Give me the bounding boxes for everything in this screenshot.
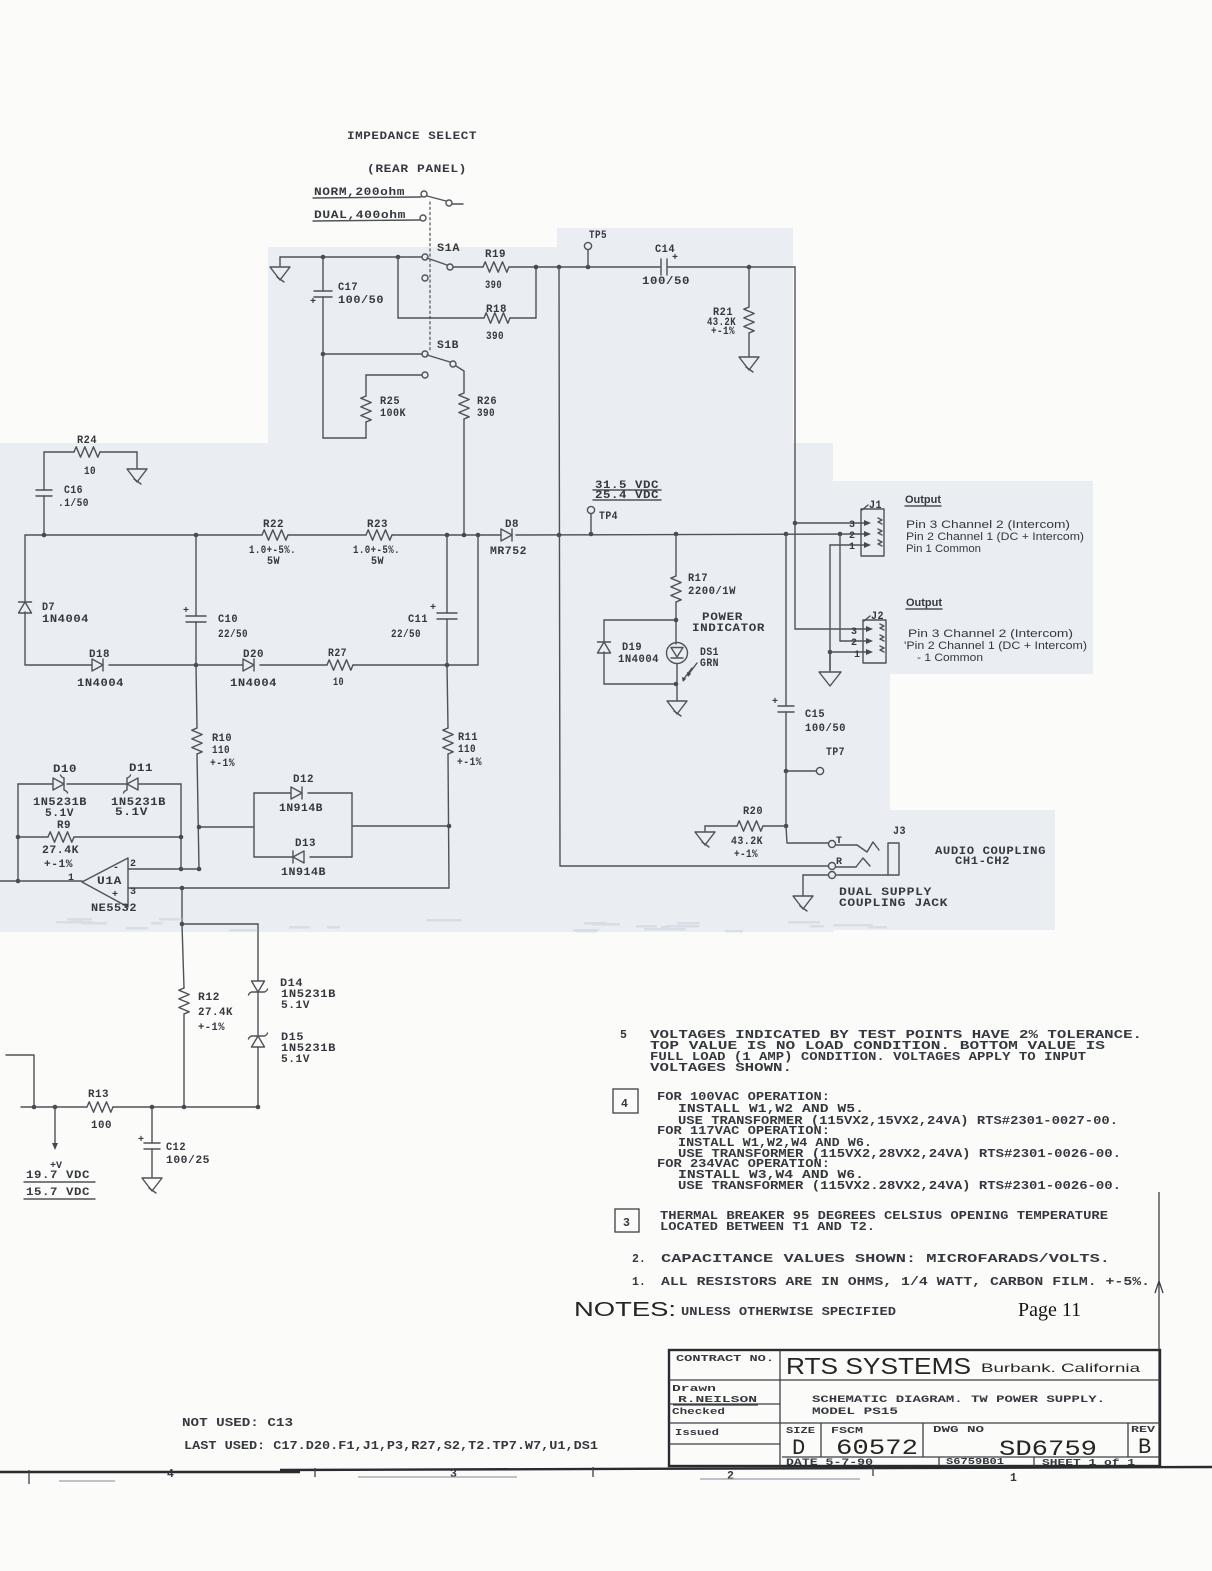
test point TP4 [587, 506, 594, 513]
svg-text:10: 10 [333, 677, 344, 689]
svg-text:390: 390 [477, 408, 495, 420]
node R12/D14 branch [180, 922, 185, 927]
svg-text:ALL RESISTORS ARE IN OHMS, 1/4: ALL RESISTORS ARE IN OHMS, 1/4 WATT, CAR… [661, 1276, 1150, 1289]
node L-wire/row [32, 1105, 37, 1110]
node J2 pin2/rail [838, 532, 843, 537]
svg-text:+: + [183, 606, 189, 617]
switch S1A [422, 254, 428, 260]
svg-text:J1: J1 [869, 500, 882, 512]
svg-text:D7: D7 [42, 602, 55, 614]
resistor R10 [196, 665, 197, 728]
node C15/rail [784, 532, 789, 537]
svg-text:(REAR PANEL): (REAR PANEL) [367, 164, 467, 176]
svg-text:5.1V: 5.1V [281, 1054, 310, 1066]
svg-text:LAST USED: C17.D20.F1,J1,P3,: LAST USED: C17.D20.F1,J1,P3,R27,S2,T2.TP… [184, 1440, 598, 1453]
node C11/rail [445, 533, 450, 538]
svg-text:Pin 2 Channel 1 (DC + Intercom: Pin 2 Channel 1 (DC + Intercom) [906, 531, 1084, 543]
svg-text:MR752: MR752 [490, 546, 527, 558]
capacitor C15 [785, 534, 787, 706]
diode D18 1N4004 [92, 659, 103, 671]
wire - box right to R11 column [352, 825, 449, 827]
resistor R20 43.2K [763, 825, 786, 827]
wire - R20 node to jack tip [786, 826, 828, 843]
svg-text:Burbank. California: Burbank. California [981, 1361, 1140, 1375]
svg-text:NOTES:: NOTES: [574, 1299, 676, 1321]
svg-text:D19: D19 [622, 642, 642, 654]
svg-text:-: - [113, 863, 119, 874]
svg-text:100/50: 100/50 [642, 276, 690, 288]
capacitor C12 [151, 1107, 153, 1143]
svg-text:C16: C16 [64, 485, 83, 497]
svg-text:- 1 Common: - 1 Common [917, 652, 983, 664]
switch S2 DUAL contact [420, 215, 426, 221]
svg-text:+-1%: +-1% [44, 859, 73, 871]
svg-text:Issued: Issued [675, 1427, 719, 1438]
wire - left column to D7 [24, 535, 26, 602]
svg-text:J2: J2 [871, 611, 884, 623]
node R18 left junction [396, 255, 401, 260]
resistor R9 [18, 836, 48, 838]
svg-text:Output: Output [905, 494, 941, 506]
svg-text:5.1V: 5.1V [45, 808, 74, 820]
svg-text:100/25: 100/25 [166, 1155, 210, 1167]
node return/rail [476, 533, 481, 538]
svg-text:Page 11: Page 11 [1018, 1299, 1081, 1321]
svg-text:SHEET 1 of 1: SHEET 1 of 1 [1042, 1457, 1135, 1468]
resistor R23 [366, 530, 392, 540]
svg-text:R11: R11 [458, 732, 478, 744]
node TP4/rail [589, 532, 594, 537]
diode D14 1N5231B 5.1V [252, 981, 265, 992]
svg-text:DATE 5-7-90: DATE 5-7-90 [786, 1457, 873, 1469]
frame zone ticks [28, 1470, 30, 1484]
svg-text:C12: C12 [166, 1142, 186, 1154]
svg-text:1.: 1. [632, 1276, 646, 1289]
svg-text:CONTRACT NO.: CONTRACT NO. [676, 1353, 774, 1364]
wire - D10 to D11 [67, 783, 127, 785]
wire - J2 pin3 [795, 628, 870, 630]
node J2 pin1 branch [828, 650, 833, 655]
wire - D7 to lower rail [24, 612, 26, 665]
svg-text:U1A: U1A [97, 876, 122, 888]
scan tint region - main middle block [0, 443, 833, 932]
scan tint region - J1/J2 output area [833, 481, 1093, 674]
diode D19 1N4004 [598, 641, 611, 643]
svg-text:390: 390 [485, 280, 502, 292]
wire - D14 to D15 [257, 992, 259, 1036]
svg-text:100/50: 100/50 [338, 295, 384, 307]
svg-text:2: 2 [130, 859, 136, 870]
LED DS1 GRN [667, 643, 688, 664]
svg-text:R20: R20 [743, 806, 763, 818]
wire - zener right leg [180, 784, 182, 869]
frame bottom border [0, 1471, 300, 1473]
svg-text:+-1%: +-1% [210, 758, 235, 770]
ground below R21 [739, 357, 759, 370]
svg-text:R10: R10 [212, 733, 232, 745]
svg-text:TP5: TP5 [589, 230, 607, 242]
node pin2 wire/zener leg [179, 867, 184, 872]
node main vertical junction [557, 265, 562, 270]
wire - D14 column upper [257, 924, 259, 981]
node C10/rail [194, 533, 199, 538]
svg-text:2200/1W: 2200/1W [688, 586, 736, 598]
node R17/rail [674, 532, 679, 537]
svg-text:110: 110 [458, 744, 476, 756]
svg-text:RTS SYSTEMS: RTS SYSTEMS [786, 1353, 971, 1379]
svg-text:COUPLING JACK: COUPLING JACK [839, 898, 948, 910]
capacitor C10 [195, 535, 197, 616]
wire - D12/D13 box left side [253, 793, 255, 857]
svg-text:1: 1 [849, 542, 855, 553]
resistor R18 [484, 313, 510, 323]
svg-text:+-1%: +-1% [457, 757, 482, 769]
svg-text:USE TRANSFORMER (115VX2.28VX2,: USE TRANSFORMER (115VX2.28VX2,24VA) RTS#… [678, 1180, 1121, 1193]
svg-text:+: + [310, 297, 316, 308]
node R12/row [182, 1105, 187, 1110]
switch S1B [422, 351, 428, 357]
connector J2 body [863, 620, 886, 663]
wire - S1B arm to R26 [456, 366, 464, 393]
resistor R22 [262, 530, 288, 540]
node R10/D12 branch [197, 825, 202, 830]
ground below J3 [793, 896, 813, 909]
wire - main vertical from top to jack [559, 267, 828, 866]
wire - D19 bottom leg [603, 652, 605, 684]
svg-text:+-1%: +-1% [734, 849, 758, 861]
diode D15 1N5231B 5.1V [249, 1033, 268, 1039]
title block outer box [669, 1350, 1160, 1466]
wire - input to S1A [280, 256, 422, 258]
svg-text:22/50: 22/50 [391, 629, 421, 641]
frame underline artifacts [59, 1480, 115, 1482]
node R10/pin2 wire [197, 867, 202, 872]
scan artifact speckle band [56, 918, 887, 933]
svg-text:D20: D20 [243, 649, 264, 661]
node pin1 wire/zener leg [16, 879, 21, 884]
wire - J1 pin1 [830, 544, 868, 546]
svg-text:UNLESS OTHERWISE SPECIFIED: UNLESS OTHERWISE SPECIFIED [681, 1306, 896, 1319]
wire - lower rail D18 to D20 [109, 664, 243, 666]
diode D7 1N4004 [19, 601, 32, 603]
wire - return riser [477, 535, 479, 665]
svg-text:R27: R27 [328, 648, 347, 660]
wire - S1B lower contact to R25 [366, 374, 422, 376]
svg-text:22/50: 22/50 [218, 629, 248, 641]
wire - lower rail D20 to R27 [260, 664, 327, 666]
capacitor C14 [660, 259, 662, 275]
svg-text:R24: R24 [77, 435, 97, 447]
svg-text:R17: R17 [688, 573, 708, 585]
svg-text:Output: Output [906, 597, 942, 609]
svg-text:10: 10 [84, 466, 96, 478]
note 4 box [613, 1089, 638, 1113]
resistor R19 [483, 262, 509, 272]
wire - D15 to bottom row [257, 1047, 259, 1107]
wire - bottom row left [21, 1106, 87, 1108]
svg-text:.1/50: .1/50 [58, 498, 89, 510]
wire - feed from left edge [6, 1055, 34, 1107]
resistor R13 [87, 1102, 113, 1112]
svg-text:19.7 VDC: 19.7 VDC [26, 1170, 90, 1182]
node R9 left [16, 835, 21, 840]
diode D11 1N5231B 5.1V [127, 778, 138, 790]
svg-text:1: 1 [1010, 1472, 1017, 1485]
svg-text:TP7: TP7 [826, 747, 845, 759]
wire - zener left leg [17, 784, 19, 881]
node C10/lower rail [194, 663, 199, 668]
svg-text:Pin 1 Common: Pin 1 Common [906, 543, 981, 555]
wire - C14 to corner [668, 266, 795, 268]
ground below C12 [142, 1178, 162, 1191]
svg-text:D18: D18 [89, 649, 110, 661]
svg-text:R13: R13 [88, 1089, 109, 1101]
node TP7 [784, 769, 789, 774]
wire - J1 pin1 down to J2/ground [829, 545, 831, 670]
svg-text:2: 2 [851, 638, 857, 649]
+V test arrow [54, 1107, 56, 1144]
node R19/R18 junction [534, 265, 539, 270]
svg-text:C15: C15 [805, 709, 825, 721]
wire - U1A pin1 output [0, 880, 82, 882]
svg-text:1N4004: 1N4004 [618, 654, 659, 666]
wire - C14 corner down to J1 pin3 [794, 267, 796, 629]
wire - R18 right leg [510, 317, 536, 319]
node D19 bottom [674, 682, 679, 687]
wire - C17 to S1B [321, 352, 326, 357]
wire - pin3 branch down [181, 888, 183, 924]
node C17 top junction [321, 255, 326, 260]
svg-text:100K: 100K [380, 408, 406, 420]
svg-text:NOT USED: C13: NOT USED: C13 [182, 1417, 293, 1430]
frame right border [1158, 1192, 1160, 1466]
svg-text:1N4004: 1N4004 [230, 678, 277, 690]
node C11/lower rail [445, 663, 450, 668]
svg-text:3: 3 [849, 520, 855, 531]
wire - D11 to right leg [139, 783, 181, 785]
svg-text:R23: R23 [367, 519, 388, 531]
svg-text:C14: C14 [655, 244, 675, 256]
diode D8 MR752 [501, 529, 512, 541]
svg-text:D11: D11 [129, 763, 153, 775]
svg-text:390: 390 [486, 331, 504, 343]
jack J3 body [888, 843, 899, 875]
connector J1 body [861, 509, 884, 556]
node C12/row [150, 1105, 155, 1110]
svg-text:GRN: GRN [700, 658, 719, 670]
node TP5 junction [586, 265, 591, 270]
wire - zener chain top [18, 783, 53, 785]
svg-text:J3: J3 [893, 826, 906, 838]
svg-text:3: 3 [851, 627, 857, 638]
svg-text:1N4004: 1N4004 [42, 614, 89, 626]
wire - J1 pin2 (rail) [858, 533, 868, 535]
svg-text:R22: R22 [263, 519, 284, 531]
svg-text:R26: R26 [477, 396, 497, 408]
svg-text:SCHEMATIC DIAGRAM. TW POWER: SCHEMATIC DIAGRAM. TW POWER SUPPLY. [812, 1394, 1105, 1406]
node main vertical/rail [557, 533, 562, 538]
svg-text:MODEL PS15: MODEL PS15 [812, 1406, 898, 1418]
diode D10 1N5231B 5.1V [53, 778, 64, 790]
test point TP5 [587, 250, 589, 267]
svg-text:R.NEILSON: R.NEILSON [678, 1394, 757, 1405]
svg-text:1N914B: 1N914B [279, 803, 323, 815]
svg-text:R25: R25 [380, 396, 400, 408]
wire - LED to ground [676, 664, 678, 700]
diode D20 1N4004 [243, 659, 254, 671]
jack J3 tip contact T [829, 841, 836, 848]
svg-text:VOLTAGES SHOWN.: VOLTAGES SHOWN. [650, 1062, 792, 1075]
wire - D12/D13 box right side [351, 793, 353, 857]
jack J3 ring contact R [829, 863, 836, 870]
svg-text:3: 3 [623, 1217, 630, 1230]
svg-text:C11: C11 [408, 614, 428, 626]
svg-text:3: 3 [130, 887, 136, 898]
svg-text:IMPEDANCE SELECT: IMPEDANCE SELECT [347, 131, 477, 143]
wire - D19 top leg [604, 619, 676, 621]
svg-text:2: 2 [727, 1470, 734, 1483]
svg-text:B: B [1138, 1435, 1151, 1460]
svg-text:27.4K: 27.4K [42, 845, 79, 857]
svg-text:D13: D13 [295, 838, 316, 850]
node R20 [784, 824, 789, 829]
jack J3 sleeve contact [829, 872, 836, 879]
svg-text:100: 100 [91, 1120, 112, 1132]
ground at C17 input [279, 257, 281, 266]
svg-text:2: 2 [849, 531, 855, 542]
note 3 box [615, 1209, 639, 1232]
svg-text:+: + [138, 1135, 144, 1146]
wire - S1A arm to R19 [453, 266, 483, 268]
svg-text:27.4K: 27.4K [198, 1007, 233, 1019]
node pin3 branch [180, 886, 185, 891]
switch S2 NORM contact [421, 191, 427, 197]
diode D12 1N914B [254, 792, 291, 794]
scan tint region - TP5/C14/R21 strip [557, 228, 793, 444]
scan tint region - switch/C17 area [268, 247, 557, 444]
capacitor C11 [446, 535, 448, 613]
wire - J2 pin1 [830, 651, 870, 653]
svg-text:R18: R18 [486, 304, 507, 316]
wire - rail D8 to J1 pin2 [516, 534, 858, 535]
svg-text:D12: D12 [293, 774, 314, 786]
wire - bottom row right [113, 1106, 258, 1108]
capacitor C16 [43, 452, 45, 490]
svg-text:REV: REV [1131, 1424, 1155, 1435]
capacitor C17 [322, 257, 324, 291]
op-amp U1A NE5532 [82, 858, 128, 907]
wire - U1A pin3 input [128, 887, 449, 889]
svg-text:5: 5 [620, 1029, 627, 1042]
svg-text:Checked: Checked [672, 1406, 725, 1417]
svg-text:5W: 5W [267, 556, 280, 568]
wire - R19 to C14 [509, 266, 660, 268]
node R9 right [179, 835, 184, 840]
node R26/rail [462, 533, 467, 538]
svg-text:Drawn: Drawn [672, 1383, 716, 1394]
resistor R12 [182, 924, 184, 988]
resistor R26 [459, 393, 469, 419]
resistor R24 [44, 451, 74, 453]
svg-text:DWG NO: DWG NO [933, 1424, 984, 1435]
svg-text:+: + [112, 890, 118, 901]
resistor R17 2200/1W [675, 534, 677, 576]
svg-text:Pin 3 Channel 2 (Intercom): Pin 3 Channel 2 (Intercom) [908, 628, 1073, 640]
wire - to D12/D13 box left [199, 826, 254, 828]
wire - sleeve to ground [803, 874, 828, 876]
svg-text:3: 3 [450, 1468, 457, 1481]
scan tint region - audio coupling area [833, 810, 1055, 930]
svg-text:1: 1 [854, 650, 860, 661]
test point TP7 [786, 770, 816, 772]
ground below DS1 [667, 701, 687, 714]
wire - lower rail to D18 [25, 664, 92, 666]
wire - lower rail R27 to return riser [353, 664, 478, 666]
wire - R25 bottom to C17 [323, 437, 366, 439]
svg-text:R19: R19 [485, 249, 506, 261]
node R21 junction [747, 265, 752, 270]
node J1 pin3 branch [793, 521, 798, 526]
scan tint region - below J2 [833, 674, 890, 810]
svg-text:4: 4 [167, 1468, 174, 1481]
svg-text:5.1V: 5.1V [281, 1000, 310, 1012]
resistor R21 [748, 267, 750, 307]
svg-text:+: + [430, 603, 436, 614]
svg-text:S1A: S1A [437, 243, 460, 255]
svg-text:2.: 2. [632, 1253, 646, 1266]
svg-text:NE5532: NE5532 [91, 903, 137, 915]
svg-text:C10: C10 [218, 614, 238, 626]
svg-text:S1B: S1B [437, 340, 459, 352]
svg-text:FSCM: FSCM [831, 1425, 863, 1436]
title block lines [779, 1350, 781, 1466]
ground below J1/J2 [829, 652, 831, 671]
resistor R11 [447, 665, 448, 728]
svg-text:+-1%: +-1% [198, 1022, 225, 1034]
svg-text:LOCATED BETWEEN T1 AND T2.: LOCATED BETWEEN T1 AND T2. [660, 1221, 875, 1234]
wire - branch to D14 column [182, 923, 258, 925]
ground left of R20 [704, 826, 706, 831]
wire - rail R22 to R23 [288, 534, 366, 536]
frame zone arrow [1155, 1281, 1163, 1293]
svg-text:Pin 3 Channel 2 (Intercom): Pin 3 Channel 2 (Intercom) [906, 519, 1070, 531]
svg-text:D8: D8 [505, 519, 519, 531]
wire - main rail left section [25, 534, 262, 536]
svg-text:CH1-CH2: CH1-CH2 [955, 856, 1010, 868]
switch S2 arm [427, 196, 446, 201]
svg-text:SIZE: SIZE [786, 1425, 815, 1436]
node +V arrow [53, 1105, 58, 1110]
svg-text:1N4004: 1N4004 [77, 678, 124, 690]
wire - J1 pin3 [795, 522, 868, 524]
svg-text:110: 110 [212, 745, 230, 757]
svg-text:4: 4 [621, 1098, 628, 1111]
svg-text:5W: 5W [371, 556, 384, 568]
svg-text:1N914B: 1N914B [281, 867, 326, 879]
node D19 top [674, 618, 679, 623]
svg-text:CAPACITANCE VALUES SHOWN: MICR: CAPACITANCE VALUES SHOWN: MICROFARADS/VO… [661, 1253, 1110, 1266]
svg-text:D10: D10 [53, 764, 77, 776]
resistor R27 [327, 660, 353, 670]
svg-text:R9: R9 [57, 820, 71, 832]
svg-text:C17: C17 [338, 282, 358, 294]
node C16/rail [42, 533, 47, 538]
svg-text:15.7 VDC: 15.7 VDC [26, 1187, 90, 1199]
diode D13 1N914B [254, 856, 293, 858]
svg-text:INDICATOR: INDICATOR [692, 623, 765, 635]
node R11/D12 box [447, 824, 452, 829]
switch mechanical link (dashed) [429, 202, 431, 351]
